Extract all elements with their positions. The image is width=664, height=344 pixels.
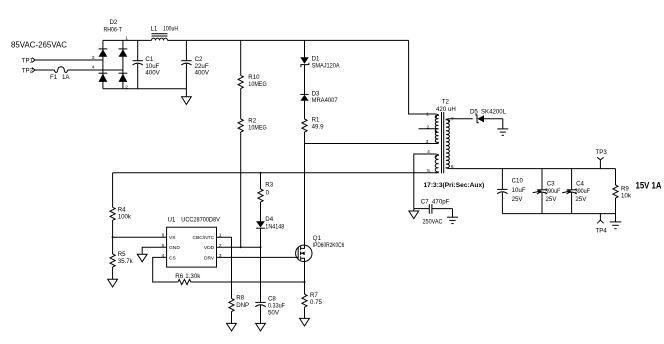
- transistor Q1 IPD60R2K0C6: [296, 235, 345, 262]
- capacitor C1 10uF 400V: [133, 40, 161, 88]
- svg-text:390uF: 390uF: [575, 188, 591, 195]
- wire aux rail down to R4: [112, 173, 114, 208]
- wire transformer pin 4 down to C7 node: [414, 154, 435, 209]
- wire R3 to D4: [260, 202, 262, 222]
- svg-text:R3: R3: [265, 182, 273, 189]
- svg-text:2: 2: [125, 85, 128, 91]
- diode D2a top-left: [99, 48, 108, 50]
- wire U1 CBC pin to R8: [217, 237, 232, 298]
- svg-text:4: 4: [162, 253, 165, 259]
- resistor R5 35.7k: [110, 251, 134, 267]
- wire R1 to switch node: [304, 132, 306, 144]
- capacitor C2 22uF 400V: [181, 40, 210, 88]
- wire D5 to earth ground: [502, 119, 504, 129]
- svg-text:0.75: 0.75: [310, 299, 323, 306]
- svg-text:D4: D4: [265, 216, 273, 223]
- svg-text:DRV: DRV: [204, 255, 215, 261]
- svg-text:10MEG: 10MEG: [248, 125, 267, 132]
- svg-text:400V: 400V: [195, 69, 210, 76]
- svg-text:R4: R4: [118, 207, 126, 214]
- wire D3 to R1: [304, 101, 306, 119]
- svg-text:R1: R1: [312, 117, 320, 124]
- svg-text:R10: R10: [248, 74, 260, 81]
- diode D2b top-right: [119, 48, 128, 50]
- svg-text:SK4200L: SK4200L: [481, 109, 507, 116]
- wire R7 to ground: [304, 307, 306, 318]
- wire R4 to R5: [112, 220, 114, 254]
- test point TP3: [596, 149, 608, 169]
- wire TP2 to fuse: [35, 69, 54, 71]
- wire top rail to D1: [304, 40, 306, 57]
- svg-text:85VAC-265VAC: 85VAC-265VAC: [11, 41, 67, 50]
- svg-text:C10: C10: [512, 177, 524, 184]
- test point TP2: [22, 67, 35, 74]
- wire top rail bridge to L1: [103, 39, 152, 41]
- svg-text:10uF: 10uF: [512, 187, 526, 194]
- wire top rail drop to transformer pin 1: [409, 40, 435, 114]
- wire R5 to ground: [112, 267, 114, 279]
- node source junction dot: [304, 281, 306, 283]
- transformer dot secondary: [448, 120, 450, 122]
- diode bridge D2 RH06-T: [92, 19, 129, 91]
- wire output bottom rail: [502, 213, 615, 215]
- wire bridge left column: [102, 40, 104, 88]
- resistor R4 100k: [110, 207, 132, 221]
- ground at U1 GND: [137, 254, 147, 262]
- wire secondary pin 7 to D5: [450, 118, 473, 120]
- svg-text:10MEG: 10MEG: [248, 81, 267, 88]
- svg-text:2: 2: [219, 243, 222, 249]
- svg-text:C3: C3: [547, 180, 555, 187]
- svg-text:R9: R9: [621, 185, 629, 192]
- wire aux rail down to R3: [260, 173, 262, 189]
- svg-text:4: 4: [92, 65, 95, 71]
- svg-text:6: 6: [451, 164, 454, 170]
- fuse F1 1A: [50, 67, 70, 81]
- resistor R8 DNP: [229, 295, 249, 312]
- resistor R3 0: [258, 182, 274, 202]
- wire U1 DRV pin to Q1 gate: [217, 256, 299, 258]
- svg-text:DNP: DNP: [236, 302, 249, 309]
- svg-text:3: 3: [426, 139, 429, 145]
- svg-text:1N4148: 1N4148: [265, 223, 285, 230]
- svg-text:C8: C8: [268, 296, 276, 303]
- transformer dot aux: [435, 155, 437, 157]
- earth ground below R9: [610, 214, 622, 229]
- svg-text:1A: 1A: [62, 74, 70, 81]
- svg-text:15V 1A: 15V 1A: [636, 181, 662, 191]
- transformer secondary winding pins 7-6: [446, 119, 450, 169]
- svg-text:MRA4007: MRA4007: [312, 97, 339, 104]
- transformer primary winding pins 1-2-3: [435, 114, 439, 144]
- svg-text:TP1: TP1: [22, 57, 34, 64]
- wire D1 to D3: [304, 65, 306, 95]
- op-amp U1 UCC28700D8V controller box: [162, 217, 222, 268]
- transformer dot primary 2: [435, 130, 437, 132]
- svg-text:1: 1: [219, 233, 222, 239]
- svg-text:25V: 25V: [575, 196, 587, 203]
- svg-text:D5: D5: [470, 109, 478, 116]
- svg-text:100uH: 100uH: [163, 26, 178, 33]
- svg-text:SMAJ120A: SMAJ120A: [312, 62, 341, 69]
- diode D2c bottom-left: [99, 72, 108, 74]
- wire bottom rail bridge to C2: [103, 88, 186, 90]
- ground below R8: [227, 323, 237, 331]
- capacitor C3 390uF 25V polarized: [533, 169, 561, 214]
- wire D4 to VDD line and C8: [260, 228, 262, 302]
- wire U1 VDD pin to D4/C8 node: [217, 246, 261, 248]
- svg-text:420 uH: 420 uH: [436, 106, 456, 113]
- svg-text:3: 3: [219, 253, 222, 259]
- svg-text:R6: R6: [175, 273, 183, 280]
- transformer dot primary 1: [435, 115, 437, 117]
- svg-text:3: 3: [92, 55, 95, 61]
- svg-text:TP2: TP2: [22, 67, 34, 74]
- inductor L1 100uH: [151, 26, 179, 41]
- svg-text:5: 5: [427, 168, 430, 174]
- wire switch node down to Q1 drain: [304, 144, 306, 246]
- diode D2d bottom-right: [119, 72, 128, 74]
- capacitor C10 10uF 25V: [497, 169, 526, 214]
- svg-text:T2: T2: [442, 99, 450, 106]
- svg-text:UCC28700D8V: UCC28700D8V: [181, 217, 220, 224]
- resistor R10 10MEG: [238, 40, 267, 88]
- svg-text:25V: 25V: [546, 196, 558, 203]
- node VS junction dot: [112, 236, 114, 238]
- resistor R6 1.30k: [175, 273, 201, 285]
- svg-text:49.9: 49.9: [312, 124, 325, 131]
- svg-text:VDD: VDD: [204, 245, 215, 251]
- wire R8 to ground: [231, 312, 233, 324]
- wire aux rail: [113, 172, 439, 174]
- capacitor C8 0.33uF 50V: [255, 296, 285, 324]
- ground primary input: [182, 89, 192, 105]
- svg-text:7: 7: [451, 116, 454, 122]
- svg-text:GND: GND: [169, 245, 180, 251]
- node VDD junction dots: [240, 246, 242, 248]
- svg-text:D2: D2: [110, 19, 118, 26]
- svg-text:C4: C4: [576, 180, 584, 187]
- svg-text:CS: CS: [169, 255, 177, 261]
- svg-text:Q1: Q1: [313, 235, 322, 242]
- svg-text:L1: L1: [151, 26, 158, 33]
- ground primary at C7: [409, 209, 443, 226]
- diode D3 MRA4007: [300, 91, 338, 105]
- svg-text:R5: R5: [118, 251, 126, 258]
- svg-text:35.7k: 35.7k: [118, 258, 134, 265]
- diode D1 SMAJ120A: [300, 56, 340, 70]
- wire switch node to transformer pin 3: [305, 143, 439, 145]
- capacitor C4 390uF 25V polarized: [562, 169, 590, 214]
- svg-text:10k: 10k: [621, 192, 632, 199]
- test point TP4: [596, 214, 608, 235]
- svg-text:400V: 400V: [145, 69, 160, 76]
- svg-text:25V: 25V: [512, 196, 524, 203]
- svg-text:0.33uF: 0.33uF: [268, 303, 285, 310]
- svg-text:CBC/NTC: CBC/NTC: [192, 235, 214, 241]
- svg-text:RH06-T: RH06-T: [104, 27, 123, 34]
- wire R2 down to VDD line: [240, 132, 242, 247]
- ground below C8: [256, 323, 266, 331]
- wire VS line to U1: [113, 236, 167, 238]
- svg-text:C7: C7: [421, 199, 429, 206]
- transformer core: [441, 112, 443, 173]
- wire U1 CS pin to R6: [153, 257, 178, 282]
- wire Q1 source to R7: [304, 262, 306, 295]
- svg-text:100k: 100k: [118, 214, 132, 221]
- svg-text:6: 6: [162, 233, 165, 239]
- svg-text:R8: R8: [236, 295, 244, 302]
- diode D5 SK4200L schottky: [470, 109, 507, 123]
- wire fuse to bridge pin 4: [68, 69, 123, 71]
- svg-text:F1: F1: [50, 74, 58, 81]
- svg-text:1: 1: [426, 111, 429, 117]
- transformer T2 420uH: [419, 99, 456, 174]
- svg-text:R7: R7: [310, 292, 318, 299]
- svg-text:VS: VS: [169, 235, 176, 241]
- svg-text:17:3:3(Pri:Sec:Aux): 17:3:3(Pri:Sec:Aux): [424, 182, 485, 189]
- resistor R7 0.75: [302, 292, 323, 307]
- svg-text:50V: 50V: [268, 310, 280, 317]
- wire secondary pin 6 output rail: [450, 168, 616, 170]
- svg-text:390uF: 390uF: [545, 188, 561, 195]
- test point TP1: [22, 57, 35, 64]
- svg-text:TP4: TP4: [596, 227, 608, 234]
- svg-text:0: 0: [266, 190, 270, 197]
- ground below R7: [300, 318, 310, 326]
- svg-text:1.30k: 1.30k: [185, 273, 201, 280]
- earth ground secondary of C7: [447, 209, 458, 224]
- svg-text:IPD60R2K0C6: IPD60R2K0C6: [313, 242, 345, 249]
- resistor R1 49.9: [302, 117, 324, 132]
- svg-text:5: 5: [162, 243, 165, 249]
- earth ground below D5: [497, 129, 508, 135]
- svg-text:2: 2: [427, 124, 430, 130]
- svg-text:U1: U1: [168, 217, 176, 224]
- svg-text:250VAC: 250VAC: [423, 219, 443, 226]
- resistor R2 10MEG: [238, 118, 267, 132]
- wire top rail L1 to corner: [168, 39, 409, 41]
- wire bridge right column: [122, 40, 124, 88]
- node R3 top junction dot: [260, 172, 262, 174]
- wire U1 GND pin stub: [142, 247, 166, 254]
- svg-text:470pF: 470pF: [432, 199, 450, 206]
- svg-text:TP3: TP3: [596, 149, 608, 156]
- wire R6 to Q1 source node: [191, 281, 305, 283]
- transformer aux winding pins 4-5: [435, 154, 439, 173]
- wire TP1 to bridge pin 3: [35, 59, 103, 61]
- ground below R5: [108, 279, 118, 287]
- svg-text:R2: R2: [248, 118, 256, 125]
- capacitor C7 470pF: [414, 199, 453, 214]
- wire R10 to R2: [240, 89, 242, 120]
- diode D4 1N4148: [256, 216, 285, 230]
- transformer pin 2 stub: [419, 128, 439, 130]
- resistor R9 10k: [613, 169, 632, 214]
